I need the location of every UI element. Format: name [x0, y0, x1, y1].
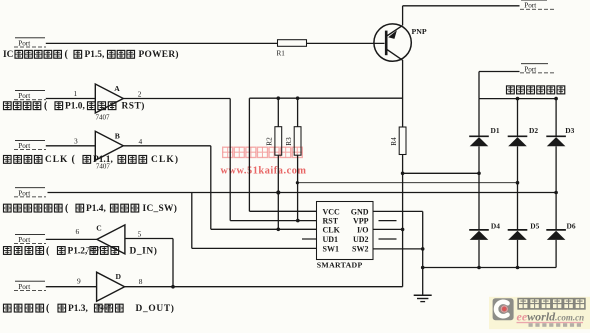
svg-text:POWER): POWER): [139, 49, 179, 60]
svg-text:8: 8: [139, 277, 143, 286]
svg-text:P1.4,: P1.4,: [86, 204, 106, 214]
junction bus D4: [477, 266, 481, 270]
svg-text:eeworld.com.cn: eeworld.com.cn: [517, 310, 585, 324]
wire R4 bottom / IO column: [402, 155, 404, 287]
junction tap D2: [516, 181, 520, 185]
wire SW1 branch down: [191, 193, 193, 249]
junction R4 column tap: [401, 172, 405, 176]
svg-text:9: 9: [77, 277, 81, 286]
svg-text:SW2: SW2: [352, 244, 368, 253]
svg-text:SW1: SW1: [323, 244, 339, 253]
port interface supply: [520, 64, 556, 74]
wire C-in down to data node: [172, 239, 174, 287]
wire port to diode bus: [479, 71, 520, 73]
stub VPP: [379, 220, 397, 222]
wire port to R1: [46, 42, 278, 44]
wire port to buffer B: [46, 145, 96, 147]
label row5 data in text: [4, 247, 12, 255]
svg-text:Port: Port: [524, 65, 536, 73]
junction SW2 on GND column: [421, 247, 425, 251]
wire column D5 lower: [517, 240, 519, 268]
svg-text:SMARTADP: SMARTADP: [317, 261, 363, 270]
junction tap D3: [554, 191, 558, 195]
wire IC_SW line: [48, 192, 557, 194]
diode D1: [469, 136, 489, 146]
diode D5: [508, 230, 528, 240]
wire column D4 lower: [478, 240, 480, 268]
stub UD1: [302, 238, 317, 240]
svg-text:VPP: VPP: [353, 217, 369, 226]
svg-text:GND: GND: [351, 207, 369, 216]
wire down to top bus: [478, 72, 480, 99]
svg-text:RST): RST): [122, 101, 145, 112]
svg-text:D_IN): D_IN): [130, 245, 158, 256]
junction tap D1: [477, 172, 481, 176]
svg-text:D4: D4: [491, 221, 500, 230]
wire R3 top lead: [297, 98, 299, 127]
resistor R2: [275, 127, 282, 156]
junction R2 top: [277, 96, 281, 100]
junction GND column bottom bus: [421, 266, 425, 270]
wire tap line to D2/D5: [297, 182, 517, 184]
label row3 clock text: [4, 156, 12, 164]
wire R3 bottom lead: [297, 155, 299, 220]
wire VCC rail horizontal: [249, 97, 402, 99]
port P1.2 data in: [14, 234, 46, 244]
wire VCC into IC: [249, 210, 316, 212]
wire VCC rail down to IC: [248, 98, 250, 211]
wire buffer B out (CLK): [123, 145, 211, 147]
port top right: [520, 0, 554, 10]
svg-text:2: 2: [138, 89, 142, 98]
svg-text:D: D: [116, 272, 122, 281]
resistor R3: [294, 127, 301, 156]
label row2 reset control text: [4, 102, 12, 110]
watermark 51kaifa (decorative): [223, 147, 233, 157]
junction R2 bottom on CLK: [277, 228, 281, 232]
svg-text:I/O: I/O: [357, 225, 369, 234]
svg-text:6: 6: [76, 227, 80, 236]
svg-text:Port: Port: [18, 236, 30, 244]
svg-text:IC: IC: [3, 50, 14, 60]
wire SW1 into IC: [192, 247, 317, 249]
svg-text:P1.5,: P1.5,: [85, 50, 105, 60]
port P1.5 IC card power control: [14, 38, 46, 48]
wire CLK into IC: [211, 228, 317, 230]
transistor Q1 PNP: [374, 24, 411, 61]
svg-text:1: 1: [74, 89, 78, 98]
svg-text:R3: R3: [285, 137, 293, 146]
svg-text:P1.2,: P1.2,: [68, 246, 88, 256]
svg-text:UD1: UD1: [323, 235, 339, 244]
diode D6: [546, 230, 566, 240]
svg-text:IC_SW): IC_SW): [143, 203, 178, 214]
wire Q1 collector down: [402, 60, 404, 127]
svg-text:Port: Port: [18, 142, 30, 150]
svg-text:Port: Port: [524, 2, 536, 10]
label row6 data out text: [4, 304, 12, 312]
wire column D2 to tap: [517, 146, 519, 182]
svg-text:D6: D6: [567, 221, 576, 230]
diode D3: [546, 136, 566, 146]
wire data node to I/O column: [125, 286, 403, 288]
svg-text:RST: RST: [323, 217, 339, 226]
svg-text:C: C: [96, 224, 101, 233]
IC U2 SMARTADP: [317, 202, 374, 260]
junction I/O on column: [401, 228, 405, 232]
svg-text:D5: D5: [530, 221, 539, 230]
junction R3 column tap: [296, 181, 299, 184]
wire CLK vertical: [210, 146, 212, 230]
svg-text:R4: R4: [390, 137, 398, 146]
wire R1 to Q1 base: [307, 42, 385, 44]
junction R3 bottom on RST: [296, 219, 300, 223]
svg-text:CLK: CLK: [323, 225, 341, 234]
svg-text:R1: R1: [277, 50, 286, 58]
junction data node: [171, 285, 175, 289]
wire column D1 to tap: [478, 146, 480, 173]
svg-text:D1: D1: [491, 126, 500, 135]
wire column D3 upper: [555, 99, 557, 137]
junction bus D2: [516, 97, 520, 101]
wire tap line to D1/D4: [403, 172, 479, 174]
resistor R4: [399, 127, 406, 155]
svg-text:3: 3: [74, 136, 78, 145]
wire GND pin right: [373, 210, 423, 212]
wire Q1 emitter up: [402, 6, 404, 26]
wire column D6 lower: [555, 240, 557, 268]
svg-text:D2: D2: [529, 126, 538, 135]
wire port to buffer A: [46, 98, 96, 100]
junction R2 column on IC_SW line: [276, 190, 280, 194]
svg-text:P1.3,: P1.3,: [68, 304, 88, 314]
wire top diode bus: [479, 98, 556, 100]
svg-text:PNP: PNP: [412, 27, 427, 36]
svg-text:www.51kaifa.com: www.51kaifa.com: [221, 166, 307, 177]
buffer U1C 7407: [97, 225, 125, 254]
port P1.4 insert detect: [14, 188, 46, 198]
wire SW2 pin: [373, 248, 423, 250]
wire column D1 upper: [478, 99, 480, 137]
wire R2 top lead: [277, 98, 279, 127]
svg-text:UD2: UD2: [353, 235, 369, 244]
port P1.1 clock: [14, 140, 46, 150]
wire port to buffer D: [46, 286, 97, 288]
wire RST into IC: [230, 220, 316, 222]
buffer U1B 7407: [95, 131, 123, 160]
svg-text:P1.1,: P1.1,: [93, 155, 113, 165]
port P1.3 data out: [14, 281, 46, 291]
wire column D2 upper: [517, 99, 519, 137]
svg-text:B: B: [115, 131, 120, 140]
resistor R1: [278, 40, 307, 47]
svg-text:P1.0,: P1.0,: [65, 102, 85, 112]
diode D4: [469, 230, 489, 240]
stub UD2: [379, 238, 397, 240]
svg-text:7407: 7407: [96, 114, 111, 122]
svg-text:Port: Port: [18, 39, 30, 47]
junction bus D5: [516, 266, 520, 270]
wire column to D4: [478, 173, 480, 230]
ground symbol: [414, 295, 432, 301]
wire buffer C in: [125, 238, 173, 240]
junction R3 top: [296, 96, 300, 100]
buffer U1D 7407: [97, 272, 125, 301]
svg-text:A: A: [114, 84, 120, 93]
svg-text:D_OUT): D_OUT): [136, 303, 175, 314]
wire RST vertical: [229, 99, 231, 221]
buffer U1A 7407: [95, 84, 123, 113]
label interface supply (CJK): [507, 86, 515, 94]
svg-text:R2: R2: [266, 137, 274, 146]
wire column D3 to tap: [555, 146, 557, 192]
svg-text:D3: D3: [565, 126, 574, 135]
wire to top-right port: [403, 5, 520, 7]
wire GND vertical: [422, 211, 424, 294]
svg-text:VCC: VCC: [323, 207, 341, 216]
svg-text:Port: Port: [18, 283, 30, 291]
svg-text:Port: Port: [18, 92, 30, 100]
port P1.0 reset: [14, 91, 46, 101]
wire R2 bottom lead: [277, 155, 279, 229]
wire I/O pin: [373, 228, 403, 230]
svg-text:5: 5: [138, 230, 142, 239]
wire port to buffer C out: [46, 238, 97, 240]
wire bottom diode bus: [423, 267, 556, 269]
wire column to D6: [555, 193, 557, 230]
diode D2: [508, 136, 528, 146]
svg-text:CLK): CLK): [151, 154, 179, 165]
wire column to D5: [517, 183, 519, 230]
svg-text:CLK: CLK: [45, 155, 68, 165]
watermark eeworld logo (decorative): [489, 297, 590, 329]
junction bus D3: [554, 97, 558, 101]
svg-text:Port: Port: [18, 189, 30, 197]
svg-text:4: 4: [139, 137, 143, 146]
label row4 insert detect text: [4, 204, 12, 212]
wire buffer A out (RST): [123, 98, 230, 100]
